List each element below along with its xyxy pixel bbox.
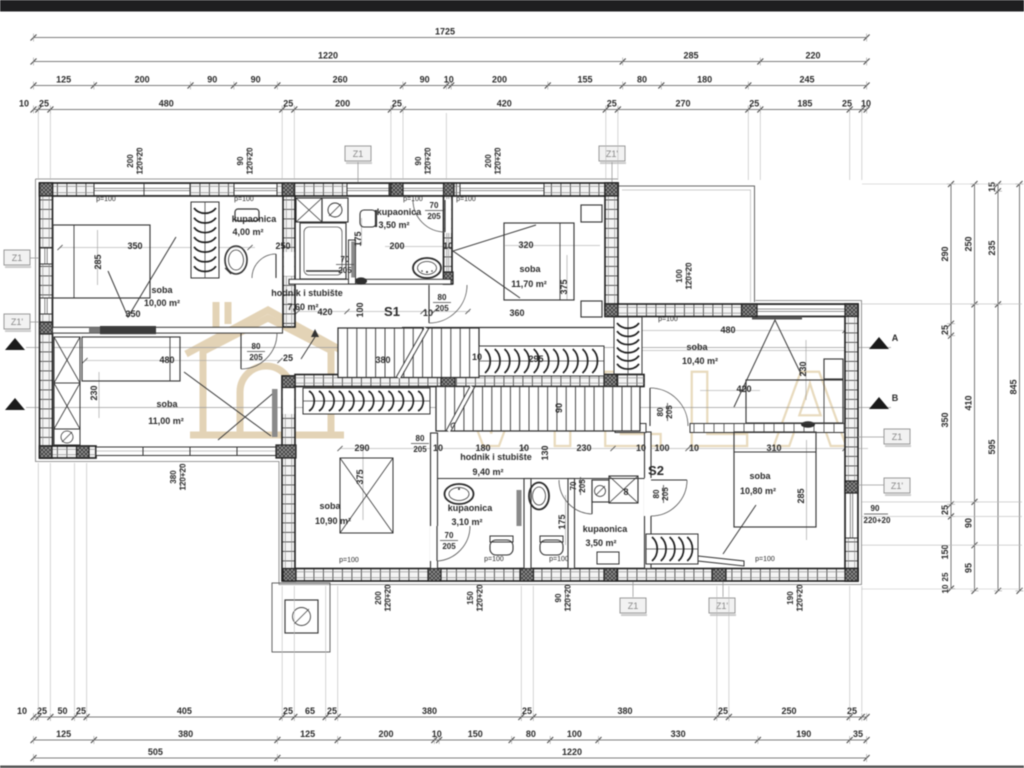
round sink kup3.50u: [413, 258, 441, 278]
svg-text:25: 25: [607, 99, 617, 109]
right dimension column 3: [997, 184, 999, 591]
wardrobe hangers S1 landing: [479, 346, 604, 376]
svg-text:100: 100: [654, 443, 669, 453]
svg-text:10: 10: [19, 99, 29, 109]
svg-text:p=100: p=100: [234, 196, 254, 203]
svg-text:90: 90: [554, 593, 563, 602]
section markers Z1 bottom: [620, 598, 646, 613]
staircase S1: [338, 328, 479, 378]
svg-text:70: 70: [569, 481, 578, 490]
svg-text:25: 25: [847, 706, 857, 716]
svg-text:25: 25: [940, 505, 950, 515]
svg-text:90: 90: [414, 156, 423, 165]
svg-text:soba: soba: [151, 285, 173, 295]
svg-text:205: 205: [435, 304, 449, 313]
svg-text:250: 250: [964, 236, 974, 251]
svg-text:25: 25: [392, 99, 402, 109]
window left wall 1: [40, 248, 52, 264]
svg-text:120+20: 120+20: [476, 584, 485, 611]
svg-text:205: 205: [661, 487, 670, 501]
svg-text:380: 380: [617, 706, 632, 716]
middle horizontal wall: [295, 375, 644, 387]
sliding door dark leaf: [100, 326, 156, 334]
svg-text:10: 10: [432, 729, 442, 739]
door leaf bar soba11.00: [272, 389, 278, 437]
cabinet soba10.00: [235, 209, 259, 221]
svg-text:1220: 1220: [562, 747, 582, 757]
svg-text:80: 80: [252, 342, 261, 351]
svg-text:380: 380: [375, 355, 390, 365]
door gap soba11.00: [238, 328, 278, 333]
section line A-A: [26, 347, 891, 349]
svg-text:S1: S1: [384, 304, 400, 319]
svg-text:410: 410: [964, 395, 974, 410]
svg-text:Z1': Z1': [11, 317, 24, 327]
bottom dimension row 2: [34, 739, 867, 741]
svg-text:25: 25: [39, 99, 49, 109]
svg-text:220: 220: [805, 51, 820, 61]
svg-text:120+20: 120+20: [494, 147, 503, 174]
bed soba10.40: [746, 380, 843, 423]
door gap S1: [424, 280, 448, 285]
watermark house logo: [186, 302, 348, 435]
svg-text:10: 10: [519, 443, 529, 453]
svg-text:90: 90: [236, 156, 245, 165]
svg-text:480: 480: [159, 355, 174, 365]
extension lines top: [281, 113, 283, 180]
svg-text:190: 190: [796, 729, 811, 739]
svg-text:230: 230: [798, 361, 808, 376]
section arrow B right: [869, 397, 889, 409]
svg-text:kupaonica: kupaonica: [448, 503, 494, 513]
section markers Z1 top: [345, 146, 371, 161]
svg-text:375: 375: [355, 469, 365, 484]
window top wall 1b: [234, 184, 277, 196]
extension lines right: [862, 183, 1022, 185]
top black bar: [0, 0, 1024, 12]
partition kup3.10 west: [431, 433, 438, 569]
svg-text:230: 230: [89, 385, 99, 400]
svg-text:Z1': Z1': [716, 601, 729, 611]
ramp soba10.80: [698, 556, 744, 566]
svg-text:595: 595: [987, 439, 997, 454]
bottom dark edge: [0, 766, 1024, 768]
svg-text:11,70 m²: 11,70 m²: [511, 279, 547, 289]
svg-text:320: 320: [518, 240, 533, 250]
wall kupaonica3.50/soba11.70: [444, 196, 453, 284]
svg-text:25: 25: [718, 706, 728, 716]
svg-text:120+20: 120+20: [564, 584, 573, 611]
door kup3.10: [436, 526, 438, 561]
svg-text:80: 80: [438, 293, 447, 302]
svg-text:10: 10: [423, 308, 433, 318]
svg-text:25: 25: [76, 706, 86, 716]
svg-text:kupaonica: kupaonica: [232, 214, 278, 224]
svg-text:25: 25: [283, 99, 293, 109]
svg-text:90: 90: [420, 75, 430, 85]
svg-text:soba: soba: [686, 342, 708, 352]
svg-text:Z1': Z1': [606, 149, 619, 159]
svg-text:Z1: Z1: [353, 149, 364, 159]
nightstand soba11.70 b: [581, 301, 602, 317]
svg-text:200: 200: [335, 99, 350, 109]
right dimension column 2: [974, 184, 976, 591]
svg-text:330: 330: [671, 729, 686, 739]
window top wall 1: [94, 184, 190, 196]
svg-text:80: 80: [656, 407, 665, 416]
svg-text:1220: 1220: [318, 51, 338, 61]
svg-text:420: 420: [497, 99, 512, 109]
svg-text:250: 250: [781, 706, 796, 716]
svg-text:200: 200: [484, 154, 493, 168]
partition corridor/soba10.80: [645, 432, 652, 569]
right exterior wall: [845, 304, 858, 581]
svg-text:10,90 m²: 10,90 m²: [315, 516, 351, 526]
top dimension row 2: [34, 61, 867, 63]
toilet kup3.10: [490, 540, 513, 555]
wardrobe hangers soba10.90: [303, 388, 430, 414]
section line B-B: [26, 407, 891, 409]
svg-text:25: 25: [283, 353, 293, 363]
basin kup3.10: [445, 484, 474, 504]
svg-text:Z1: Z1: [892, 432, 903, 442]
svg-text:10,00 m²: 10,00 m²: [144, 298, 180, 308]
wardrobe hangers soba10.40 (vertical): [614, 317, 642, 374]
svg-text:125: 125: [300, 729, 315, 739]
window top wall 2: [347, 184, 389, 196]
svg-text:205: 205: [578, 479, 587, 493]
svg-text:25: 25: [940, 325, 950, 335]
svg-text:245: 245: [799, 75, 814, 85]
svg-text:150: 150: [940, 544, 950, 559]
svg-text:90: 90: [964, 518, 974, 528]
svg-text:25: 25: [327, 706, 337, 716]
svg-text:205: 205: [427, 212, 441, 221]
svg-text:285: 285: [93, 254, 103, 269]
svg-text:10: 10: [689, 443, 699, 453]
partition wc east: [568, 479, 575, 569]
bed soba10.80: [734, 432, 816, 527]
basin wc: [529, 483, 549, 510]
sink kup3.50l: [597, 552, 619, 564]
svg-text:235: 235: [987, 240, 997, 255]
window top wall 4: [460, 184, 544, 196]
section arrow A right: [869, 337, 889, 349]
svg-text:200: 200: [389, 241, 404, 251]
svg-text:9,40 m²: 9,40 m²: [472, 467, 503, 477]
svg-text:7,60 m²: 7,60 m²: [287, 302, 318, 312]
svg-text:285: 285: [796, 488, 806, 503]
window right-block top wall: [757, 305, 845, 317]
top exterior wall of upper block: [40, 183, 619, 196]
section arrow B left: [5, 398, 25, 410]
window left wall 2: [40, 298, 52, 314]
svg-text:25: 25: [749, 99, 759, 109]
threshold ellipse: [355, 277, 367, 284]
svg-text:150: 150: [466, 591, 475, 605]
svg-text:120+20: 120+20: [384, 584, 393, 611]
svg-text:180: 180: [697, 75, 712, 85]
svg-text:180: 180: [475, 443, 490, 453]
svg-text:15: 15: [987, 182, 997, 192]
svg-text:soba: soba: [749, 471, 771, 481]
svg-text:p=100: p=100: [456, 196, 476, 203]
door gap kup4: [284, 252, 294, 276]
bed soba11.70: [504, 223, 574, 300]
svg-text:8: 8: [623, 487, 628, 497]
svg-text:150: 150: [468, 729, 483, 739]
svg-text:90: 90: [554, 403, 564, 413]
svg-text:480: 480: [159, 99, 174, 109]
stool/table soba10.00: [225, 246, 247, 274]
svg-text:375: 375: [559, 279, 569, 294]
V lines soba11.70: [453, 225, 536, 298]
washer kup4.00: [322, 198, 348, 222]
svg-text:350: 350: [125, 309, 140, 319]
svg-text:soba: soba: [519, 264, 541, 274]
svg-text:270: 270: [675, 99, 690, 109]
nightstand soba11.70 a: [581, 205, 602, 222]
svg-text:205: 205: [665, 405, 674, 419]
svg-text:70: 70: [445, 531, 454, 540]
partition bathrooms south: [289, 279, 451, 284]
svg-text:10,80 m²: 10,80 m²: [740, 486, 776, 496]
hodnik north partition wc top: [438, 478, 525, 480]
leader soba10.80: [723, 505, 756, 554]
svg-text:100: 100: [567, 729, 582, 739]
terrace outline: [618, 186, 755, 302]
stair S1 direction arrow: [301, 331, 315, 359]
svg-text:p=100: p=100: [658, 316, 678, 323]
V lines soba10.00: [108, 237, 176, 317]
leader line ticks: [337, 446, 342, 451]
svg-text:25: 25: [941, 572, 950, 581]
svg-text:120+20: 120+20: [179, 463, 188, 490]
svg-text:230: 230: [576, 443, 591, 453]
door kup3.50l: [591, 480, 593, 514]
svg-text:350: 350: [127, 241, 142, 251]
door kup3.50u: [444, 200, 446, 232]
door S1 landing: [428, 285, 430, 323]
svg-text:125: 125: [56, 729, 71, 739]
wardrobe hangers soba10.80: [646, 534, 698, 564]
svg-text:p=100: p=100: [96, 196, 116, 203]
svg-text:4,00 m²: 4,00 m²: [232, 227, 263, 237]
bathtub kup4.00: [300, 223, 346, 279]
svg-text:120+20: 120+20: [685, 262, 694, 289]
bottom dimension row 1: [34, 716, 867, 718]
svg-text:3,50 m²: 3,50 m²: [378, 220, 409, 230]
svg-text:310: 310: [766, 443, 781, 453]
svg-text:25: 25: [283, 706, 293, 716]
svg-text:80: 80: [652, 489, 661, 498]
window right wall: [846, 493, 858, 538]
washer kup3.50l: [592, 480, 609, 502]
svg-text:kupaonica: kupaonica: [583, 524, 629, 534]
toilet wc: [540, 540, 563, 555]
wall soba11.70 south: [402, 327, 618, 329]
svg-text:290: 290: [940, 246, 950, 261]
top dimension row 3: [34, 85, 867, 87]
bottom exterior wall: [283, 569, 858, 582]
svg-text:185: 185: [797, 99, 812, 109]
tick band south of soba10.40: [615, 424, 646, 433]
door gap soba10.90: [283, 388, 294, 414]
svg-text:285: 285: [683, 51, 698, 61]
door kup4.00: [275, 254, 277, 278]
wardrobe X soba10.90: [340, 458, 393, 533]
svg-text:35: 35: [853, 729, 863, 739]
toilet kup3.50u: [360, 210, 376, 227]
svg-text:80: 80: [637, 75, 647, 85]
right dimension column 4: [1019, 184, 1021, 591]
top dimension row 4: [34, 109, 867, 111]
wall junction blocks: [40, 183, 53, 196]
svg-text:190: 190: [786, 591, 795, 605]
svg-text:soba: soba: [156, 399, 178, 409]
svg-text:200: 200: [378, 729, 393, 739]
right dimension column 1: [950, 184, 952, 589]
porch outside: [272, 583, 330, 652]
svg-text:200: 200: [135, 75, 150, 85]
svg-text:200: 200: [374, 591, 383, 605]
svg-text:90: 90: [871, 504, 880, 513]
svg-text:p=100: p=100: [484, 556, 504, 563]
svg-text:B: B: [892, 393, 899, 403]
svg-text:130: 130: [540, 445, 550, 460]
bottom wall of left block: [40, 446, 97, 458]
svg-text:10: 10: [17, 706, 27, 716]
left exterior wall: [40, 183, 53, 458]
radiator gray bar kup3.10: [517, 490, 522, 526]
svg-text:155: 155: [577, 75, 592, 85]
svg-text:90: 90: [207, 75, 217, 85]
partition kup4/hodnik: [349, 240, 356, 284]
svg-text:hodnik i stubište: hodnik i stubište: [460, 452, 532, 462]
nightstand soba10.40: [824, 359, 843, 379]
svg-text:hodnik i stubište: hodnik i stubište: [271, 288, 343, 298]
svg-text:380: 380: [178, 729, 193, 739]
svg-text:Z1: Z1: [628, 601, 639, 611]
svg-text:p=100: p=100: [549, 556, 569, 563]
svg-text:380: 380: [169, 470, 178, 484]
svg-text:10: 10: [443, 241, 453, 251]
door gap kup3.50u: [444, 199, 451, 233]
bottom dimension row 3: [34, 757, 867, 759]
svg-text:70: 70: [341, 255, 350, 264]
wall soba10.00/kupaonica4.00: [283, 196, 295, 327]
right wall of upper block: [605, 183, 618, 310]
svg-text:90: 90: [251, 75, 261, 85]
door soba10.40: [649, 388, 651, 426]
bed soba11.00: [82, 337, 180, 381]
shower kup4.00: [296, 198, 322, 222]
svg-text:25: 25: [842, 99, 852, 109]
svg-text:10: 10: [636, 443, 646, 453]
interior dimension leader lines: [60, 247, 255, 249]
wardrobe X soba11.00: [54, 337, 80, 429]
svg-text:1725: 1725: [435, 27, 455, 37]
svg-text:845: 845: [1009, 379, 1019, 394]
V lines soba11.00: [184, 372, 277, 440]
svg-text:205: 205: [413, 445, 427, 454]
svg-text:3,10 m²: 3,10 m²: [451, 517, 482, 527]
svg-text:70: 70: [430, 201, 439, 210]
svg-text:10: 10: [861, 99, 871, 109]
svg-text:11,00 m²: 11,00 m²: [148, 416, 184, 426]
section markers Z1 left: [4, 250, 30, 265]
svg-text:10: 10: [472, 352, 482, 362]
svg-text:p=100: p=100: [755, 556, 775, 563]
svg-text:260: 260: [333, 75, 348, 85]
svg-text:3,50 m²: 3,50 m²: [585, 538, 616, 548]
wardrobe hangers soba10.00 (vertical): [191, 202, 219, 278]
svg-text:10,40 m²: 10,40 m²: [682, 356, 718, 366]
svg-text:380: 380: [422, 706, 437, 716]
partition wc/kup3.10: [524, 479, 531, 569]
svg-text:10: 10: [444, 75, 454, 85]
svg-text:200: 200: [492, 75, 507, 85]
section markers Z1 right: [884, 429, 910, 444]
svg-text:Z1: Z1: [12, 253, 23, 263]
staircase S2: [436, 387, 640, 432]
V lines soba10.40: [734, 320, 801, 407]
svg-text:50: 50: [57, 706, 67, 716]
svg-text:420: 420: [736, 384, 751, 394]
shower kup3.50l: [609, 476, 638, 503]
svg-text:205: 205: [338, 266, 352, 275]
roof overhang outline: [36, 179, 862, 585]
washer box soba11.00: [54, 429, 80, 445]
svg-text:405: 405: [177, 706, 192, 716]
svg-text:505: 505: [148, 747, 163, 757]
svg-text:10: 10: [433, 443, 443, 453]
door soba11.00: [240, 333, 242, 369]
svg-text:175: 175: [353, 231, 363, 246]
svg-text:360: 360: [509, 308, 524, 318]
svg-text:80: 80: [526, 729, 536, 739]
svg-text:220+20: 220+20: [864, 516, 891, 525]
svg-text:100: 100: [675, 269, 684, 283]
section arrow A left: [5, 338, 25, 350]
window band left block south: [96, 447, 283, 457]
svg-text:kupaonica: kupaonica: [377, 207, 423, 217]
svg-text:120+20: 120+20: [796, 584, 805, 611]
svg-text:295: 295: [528, 354, 543, 364]
svg-text:420: 420: [317, 307, 332, 317]
bed soba10.00: [53, 225, 150, 298]
svg-text:205: 205: [442, 542, 456, 551]
svg-text:95: 95: [964, 563, 974, 573]
svg-text:120+20: 120+20: [136, 147, 145, 174]
svg-text:Z1': Z1': [891, 481, 904, 491]
svg-text:205: 205: [249, 353, 263, 362]
dark sill under window: [752, 317, 802, 320]
svg-text:80: 80: [416, 434, 425, 443]
door threshold dark ellipse soba10.40: [801, 421, 815, 427]
svg-text:p=100: p=100: [403, 196, 423, 203]
svg-text:S2: S2: [648, 463, 664, 478]
window top wall 3: [403, 184, 444, 196]
svg-text:soba: soba: [319, 501, 341, 511]
svg-text:100: 100: [355, 302, 365, 317]
door leaf gray kup4: [351, 242, 355, 278]
top dimension row 1 (1725): [34, 37, 867, 39]
middle vertical wall: [282, 376, 295, 581]
svg-text:65: 65: [305, 706, 315, 716]
partition soba10.00/soba11.00: [53, 327, 283, 333]
svg-text:200: 200: [126, 154, 135, 168]
